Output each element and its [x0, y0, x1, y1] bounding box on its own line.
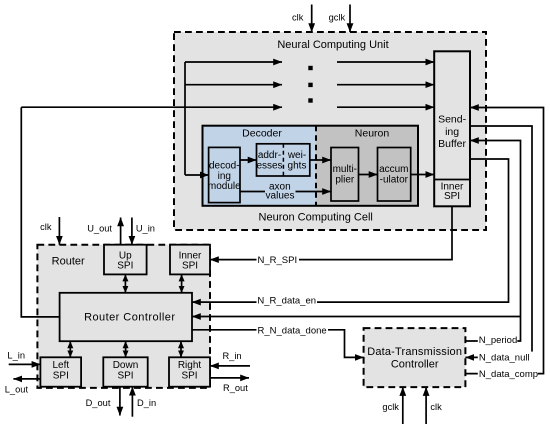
svg-text:esses: esses [256, 161, 282, 172]
svg-text:Neuron Computing Cell: Neuron Computing Cell [259, 212, 373, 224]
svg-text:Router Controller: Router Controller [84, 312, 175, 324]
svg-text:D_out: D_out [86, 398, 111, 408]
svg-text:N_R_SPI: N_R_SPI [258, 255, 298, 266]
svg-text:Controller: Controller [391, 359, 439, 371]
svg-text:clk: clk [40, 222, 52, 232]
svg-text:Neuron: Neuron [355, 128, 390, 140]
svg-text:addr-: addr- [258, 150, 281, 161]
svg-text:N_period: N_period [479, 335, 518, 346]
svg-text:Neural Computing Unit: Neural Computing Unit [277, 39, 388, 51]
svg-text:SPI: SPI [117, 371, 133, 382]
svg-text:L_out: L_out [5, 385, 29, 395]
svg-text:SPI: SPI [117, 260, 133, 271]
svg-text:Decoder: Decoder [242, 128, 282, 140]
svg-text:module: module [208, 181, 241, 192]
svg-text:Router: Router [52, 256, 85, 268]
svg-text:N_R_data_en: N_R_data_en [257, 296, 316, 307]
svg-text:SPI: SPI [181, 371, 197, 382]
svg-text:gclk: gclk [382, 402, 399, 412]
svg-text:SPI: SPI [53, 371, 69, 382]
svg-text:D_in: D_in [137, 398, 156, 408]
svg-text:-ulator: -ulator [380, 174, 409, 185]
svg-text:L_in: L_in [7, 351, 25, 361]
svg-text:SPI: SPI [444, 191, 460, 202]
svg-text:R_out: R_out [223, 383, 248, 393]
svg-text:clk: clk [292, 13, 304, 23]
svg-text:Buffer: Buffer [438, 138, 466, 150]
svg-text:N_data_comp: N_data_comp [479, 369, 538, 380]
svg-text:U_out: U_out [87, 224, 112, 234]
svg-text:N_data_null: N_data_null [479, 352, 530, 363]
svg-text:U_in: U_in [136, 224, 155, 234]
svg-text:values: values [266, 191, 295, 202]
svg-text:Left: Left [52, 360, 69, 371]
svg-text:SPI: SPI [182, 260, 198, 271]
svg-text:Down: Down [113, 360, 139, 371]
svg-text:Right: Right [178, 360, 202, 371]
svg-text:ghts: ghts [288, 161, 307, 172]
svg-text:wei-: wei- [287, 150, 306, 161]
svg-text:clk: clk [430, 402, 442, 412]
svg-text:Send-: Send- [438, 114, 467, 126]
svg-text:R_in: R_in [222, 351, 241, 361]
svg-text:ing: ing [445, 126, 459, 138]
svg-text:Data-Transmission: Data-Transmission [367, 346, 462, 358]
svg-text:plier: plier [335, 174, 355, 185]
svg-text:gclk: gclk [329, 13, 346, 23]
svg-text:R_N_data_done: R_N_data_done [258, 326, 327, 337]
